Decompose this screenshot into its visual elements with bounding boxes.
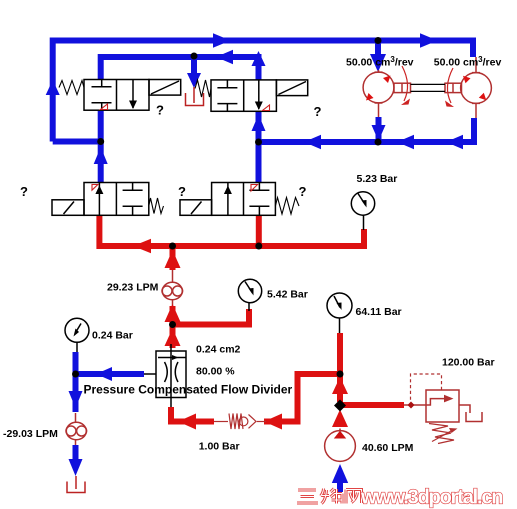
valve DV2 body: [211, 80, 276, 111]
arrow: drain down above flow meter: [69, 391, 83, 408]
arrow: valve DV3 top up to node A: [94, 147, 108, 164]
flow divider FD1: [144, 344, 186, 407]
svg-text:-29.03 LPM: -29.03 LPM: [3, 428, 58, 440]
tank T2 (bottom left): [67, 482, 85, 493]
arrow: top line right 1: [213, 33, 231, 48]
check valve CV1 1.00 Bar: [214, 414, 266, 430]
wire: L2 drop to tank: [191, 57, 197, 78]
valve DV4 drain mark: [251, 185, 258, 192]
wire: R1 junction down to flow meter: [170, 246, 176, 270]
pressure gauge G4 0.24 Bar: [65, 318, 89, 352]
arrow: left vertical up: [46, 80, 60, 95]
svg-text:?: ?: [156, 103, 164, 118]
wire: pump suction stub: [337, 483, 343, 492]
arrow: pump suction up: [332, 464, 348, 483]
arrow: tank drop down: [187, 73, 201, 88]
wire: red supply line R1: [99, 215, 364, 246]
svg-text:5.42 Bar: 5.42 Bar: [267, 289, 308, 301]
arrow: R1 left: [133, 239, 151, 254]
valve DV4 flow arrow: [224, 186, 232, 195]
valve DV1 spring: [59, 81, 84, 95]
valve DV3 flow arrow: [95, 186, 103, 195]
wire: branch to relief valve: [340, 402, 404, 408]
svg-text:?: ?: [299, 184, 307, 199]
arrow: riser up into junction: [332, 377, 348, 394]
pilot junction diamond: [408, 402, 415, 409]
arrow: L3 left a: [304, 135, 321, 150]
wire: branch to gauge 5.42: [173, 309, 250, 325]
arrow: drain horizontal left: [96, 367, 112, 381]
wire: flow divider drain horizontal: [76, 371, 145, 377]
wire: blue top return line: [53, 41, 473, 142]
valve DV4 spring: [275, 198, 299, 215]
valve DV2 solenoid: [276, 80, 307, 96]
arrow: pump up into diamond: [332, 410, 348, 428]
tank T1 (under L2 drop): [186, 93, 204, 106]
wire: valve DV1 bottom to valve DV3 top: [98, 111, 104, 183]
valve DV1 solenoid: [149, 80, 181, 96]
wire: drain gauge vertical: [73, 352, 79, 412]
valve DV3 solenoid: [52, 200, 84, 216]
svg-text:1.00 Bar: 1.00 Bar: [199, 441, 240, 453]
wire: node A horizontal to valve stack: [53, 139, 101, 145]
wire: divider bottom corner: [171, 407, 214, 422]
svg-text:120.00 Bar: 120.00 Bar: [442, 357, 495, 369]
valve DV4 body: [212, 183, 276, 216]
watermark: san wei wang glyphs: [297, 489, 362, 504]
arrow: top line right 2: [420, 33, 438, 48]
svg-text:5.23 Bar: 5.23 Bar: [357, 173, 398, 185]
svg-text:?: ?: [20, 184, 28, 199]
arrow: L2 left: [216, 50, 233, 65]
svg-text:80.00 %: 80.00 %: [196, 366, 235, 378]
flow meter FM2 -29.03 LPM: [66, 282, 173, 445]
wire: pump riser vertical: [337, 333, 343, 402]
wire: valve DV2 bottom to motor return line L3: [259, 111, 475, 142]
wire: flow meter to divider top: [172, 299, 174, 307]
svg-text:50.00 cm3/rev: 50.00 cm3/rev: [346, 55, 414, 69]
arrow: bottom line left a: [178, 414, 196, 430]
arrow: up into branch junction: [165, 304, 181, 322]
wire: left motor bottom drop: [376, 117, 382, 139]
junction diamond at pump tee: [334, 400, 346, 412]
arrow: drain down below flow meter: [69, 459, 83, 476]
wire: top line drop to left motor: [375, 43, 381, 56]
arrow: down into left motor: [370, 54, 386, 72]
flow meter FM1 29.23 LPM: [162, 282, 183, 299]
hydraulic motor M2: [461, 57, 492, 118]
svg-text:64.11 Bar: 64.11 Bar: [356, 306, 402, 318]
motor M1 direction arrows: [383, 76, 391, 84]
svg-text:50.00 cm3/rev: 50.00 cm3/rev: [434, 55, 502, 69]
arrow: up above divider: [165, 329, 181, 347]
relief valve pilot dashed line: [411, 374, 442, 401]
valve DV4 solenoid: [180, 200, 212, 216]
svg-text:0.24 Bar: 0.24 Bar: [92, 330, 133, 342]
valve DV2 spring: [195, 80, 211, 97]
arrow: L3 left c: [446, 135, 463, 150]
pump P1 40.60 LPM: [325, 429, 356, 462]
wire: L3 junction down to valve DV4 top: [256, 142, 262, 183]
wire: check valve to pump riser: [264, 374, 340, 422]
wire: valve DV4 bottom stub: [256, 215, 262, 246]
wire: drain below flow meter: [73, 445, 79, 459]
valve DV3 body: [84, 183, 149, 216]
svg-text:?: ?: [178, 184, 186, 199]
hydraulic motor M1: [363, 70, 394, 117]
valve DV2 flow arrow: [255, 102, 263, 111]
relief valve RV1 120.00 Bar: [404, 390, 482, 422]
arrow: valve DV2 bottom up: [252, 115, 266, 132]
svg-text:29.23 LPM: 29.23 LPM: [107, 282, 159, 294]
svg-text:40.60 LPM: 40.60 LPM: [362, 442, 414, 454]
motor M1 rotation arc: [402, 66, 408, 101]
svg-text:0.24 cm2: 0.24 cm2: [196, 344, 241, 356]
svg-text:Pressure Compensated Flow Divi: Pressure Compensated Flow Divider: [84, 383, 293, 397]
valve DV1 body: [84, 80, 149, 111]
pressure gauge G2 5.42 Bar: [238, 279, 261, 311]
arrow: left motor down into L3: [372, 125, 386, 141]
motor M2 direction arrows: [463, 76, 471, 84]
valve DV3 spring: [149, 198, 164, 214]
valve DV3 drain mark: [92, 185, 98, 191]
arrow: bottom line left b: [264, 414, 282, 430]
arrow: valve DV2 top stub up: [252, 51, 266, 66]
valve DV1 drain mark: [101, 104, 108, 110]
svg-text:www.3dportal.cn: www.3dportal.cn: [360, 487, 502, 509]
motor shaft: [394, 83, 462, 92]
motor M2 rotation arc: [447, 68, 453, 103]
arrow: L3 left b: [397, 135, 414, 150]
valve DV2 drain mark: [263, 105, 270, 111]
relief valve spring: [429, 424, 454, 444]
pressure gauge G3 64.11 Bar: [327, 293, 352, 333]
arrow: up into R1 junction: [165, 250, 181, 268]
pressure gauge G1 5.23 Bar: [351, 192, 374, 230]
wire: valve DV1 top to valve DV2 top (line L2): [101, 57, 259, 80]
junction node dots: [375, 37, 382, 44]
valve DV1 flow arrow: [129, 101, 137, 110]
svg-text:?: ?: [314, 104, 322, 119]
